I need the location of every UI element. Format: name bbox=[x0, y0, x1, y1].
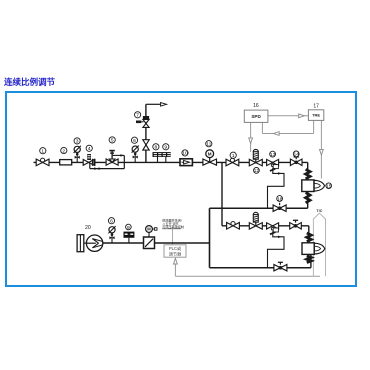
svg-text:17: 17 bbox=[313, 103, 319, 109]
svg-text:6: 6 bbox=[133, 138, 136, 144]
svg-text:M: M bbox=[208, 152, 212, 157]
svg-text:16: 16 bbox=[253, 103, 259, 109]
svg-text:18: 18 bbox=[277, 196, 283, 202]
svg-text:12: 12 bbox=[254, 168, 260, 174]
svg-text:M: M bbox=[147, 227, 151, 232]
svg-text:TRE: TRE bbox=[312, 113, 320, 118]
svg-text:7: 7 bbox=[136, 113, 139, 119]
svg-text:20: 20 bbox=[85, 225, 91, 231]
svg-text:1: 1 bbox=[232, 153, 235, 159]
svg-text:调节器: 调节器 bbox=[169, 250, 182, 257]
svg-text:3: 3 bbox=[76, 139, 79, 145]
svg-text:8: 8 bbox=[155, 145, 158, 151]
svg-text:SPD: SPD bbox=[251, 114, 261, 119]
svg-text:10: 10 bbox=[182, 151, 188, 157]
svg-text:4: 4 bbox=[88, 146, 91, 152]
svg-text:5: 5 bbox=[111, 138, 114, 144]
svg-text:2: 2 bbox=[62, 148, 65, 154]
svg-text:1: 1 bbox=[41, 148, 44, 154]
svg-text:T/C: T/C bbox=[317, 209, 323, 213]
svg-text:9: 9 bbox=[127, 225, 130, 231]
svg-text:14: 14 bbox=[293, 152, 299, 158]
svg-text:11: 11 bbox=[206, 141, 211, 147]
svg-text:PLC或: PLC或 bbox=[169, 245, 182, 251]
svg-text:6: 6 bbox=[110, 218, 113, 224]
svg-text:9: 9 bbox=[164, 145, 167, 151]
svg-text:15: 15 bbox=[326, 183, 332, 189]
svg-text:13: 13 bbox=[270, 152, 276, 158]
